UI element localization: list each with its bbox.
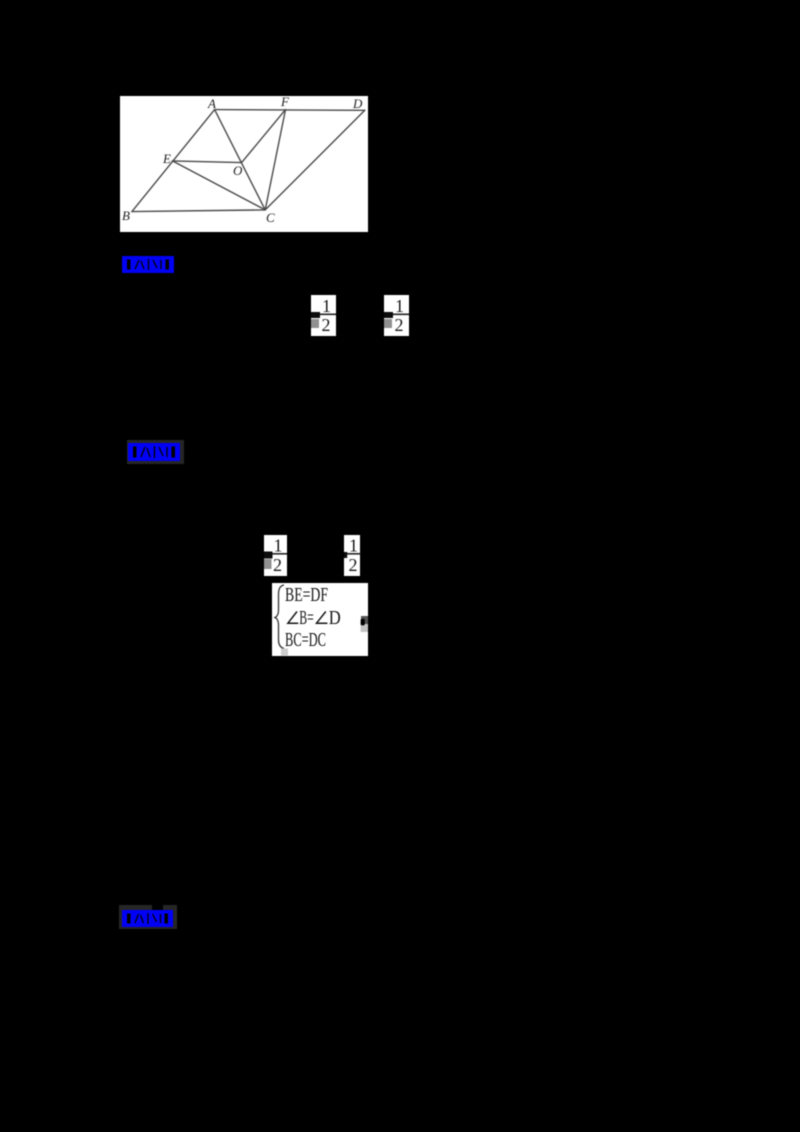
svg-text:2: 2 — [395, 315, 404, 335]
svg-text:B: B — [122, 208, 130, 223]
svg-text:C: C — [266, 210, 275, 225]
svg-text:O: O — [233, 163, 243, 178]
svg-text:D: D — [329, 607, 341, 629]
svg-text:2: 2 — [348, 555, 357, 575]
svg-text:1: 1 — [274, 536, 283, 556]
svg-text:D: D — [352, 96, 363, 111]
svg-text:1: 1 — [349, 536, 358, 556]
svg-text:F: F — [280, 96, 290, 109]
svg-text:BE=DF: BE=DF — [285, 584, 328, 606]
svg-text:2: 2 — [273, 555, 282, 575]
svg-text:E: E — [162, 151, 171, 166]
svg-text:2: 2 — [322, 315, 331, 335]
svg-text:BC=DC: BC=DC — [285, 629, 326, 651]
svg-text:1: 1 — [322, 296, 331, 316]
svg-text:B=: B= — [299, 607, 314, 629]
svg-text:1: 1 — [395, 296, 404, 316]
svg-text:A: A — [207, 96, 216, 111]
